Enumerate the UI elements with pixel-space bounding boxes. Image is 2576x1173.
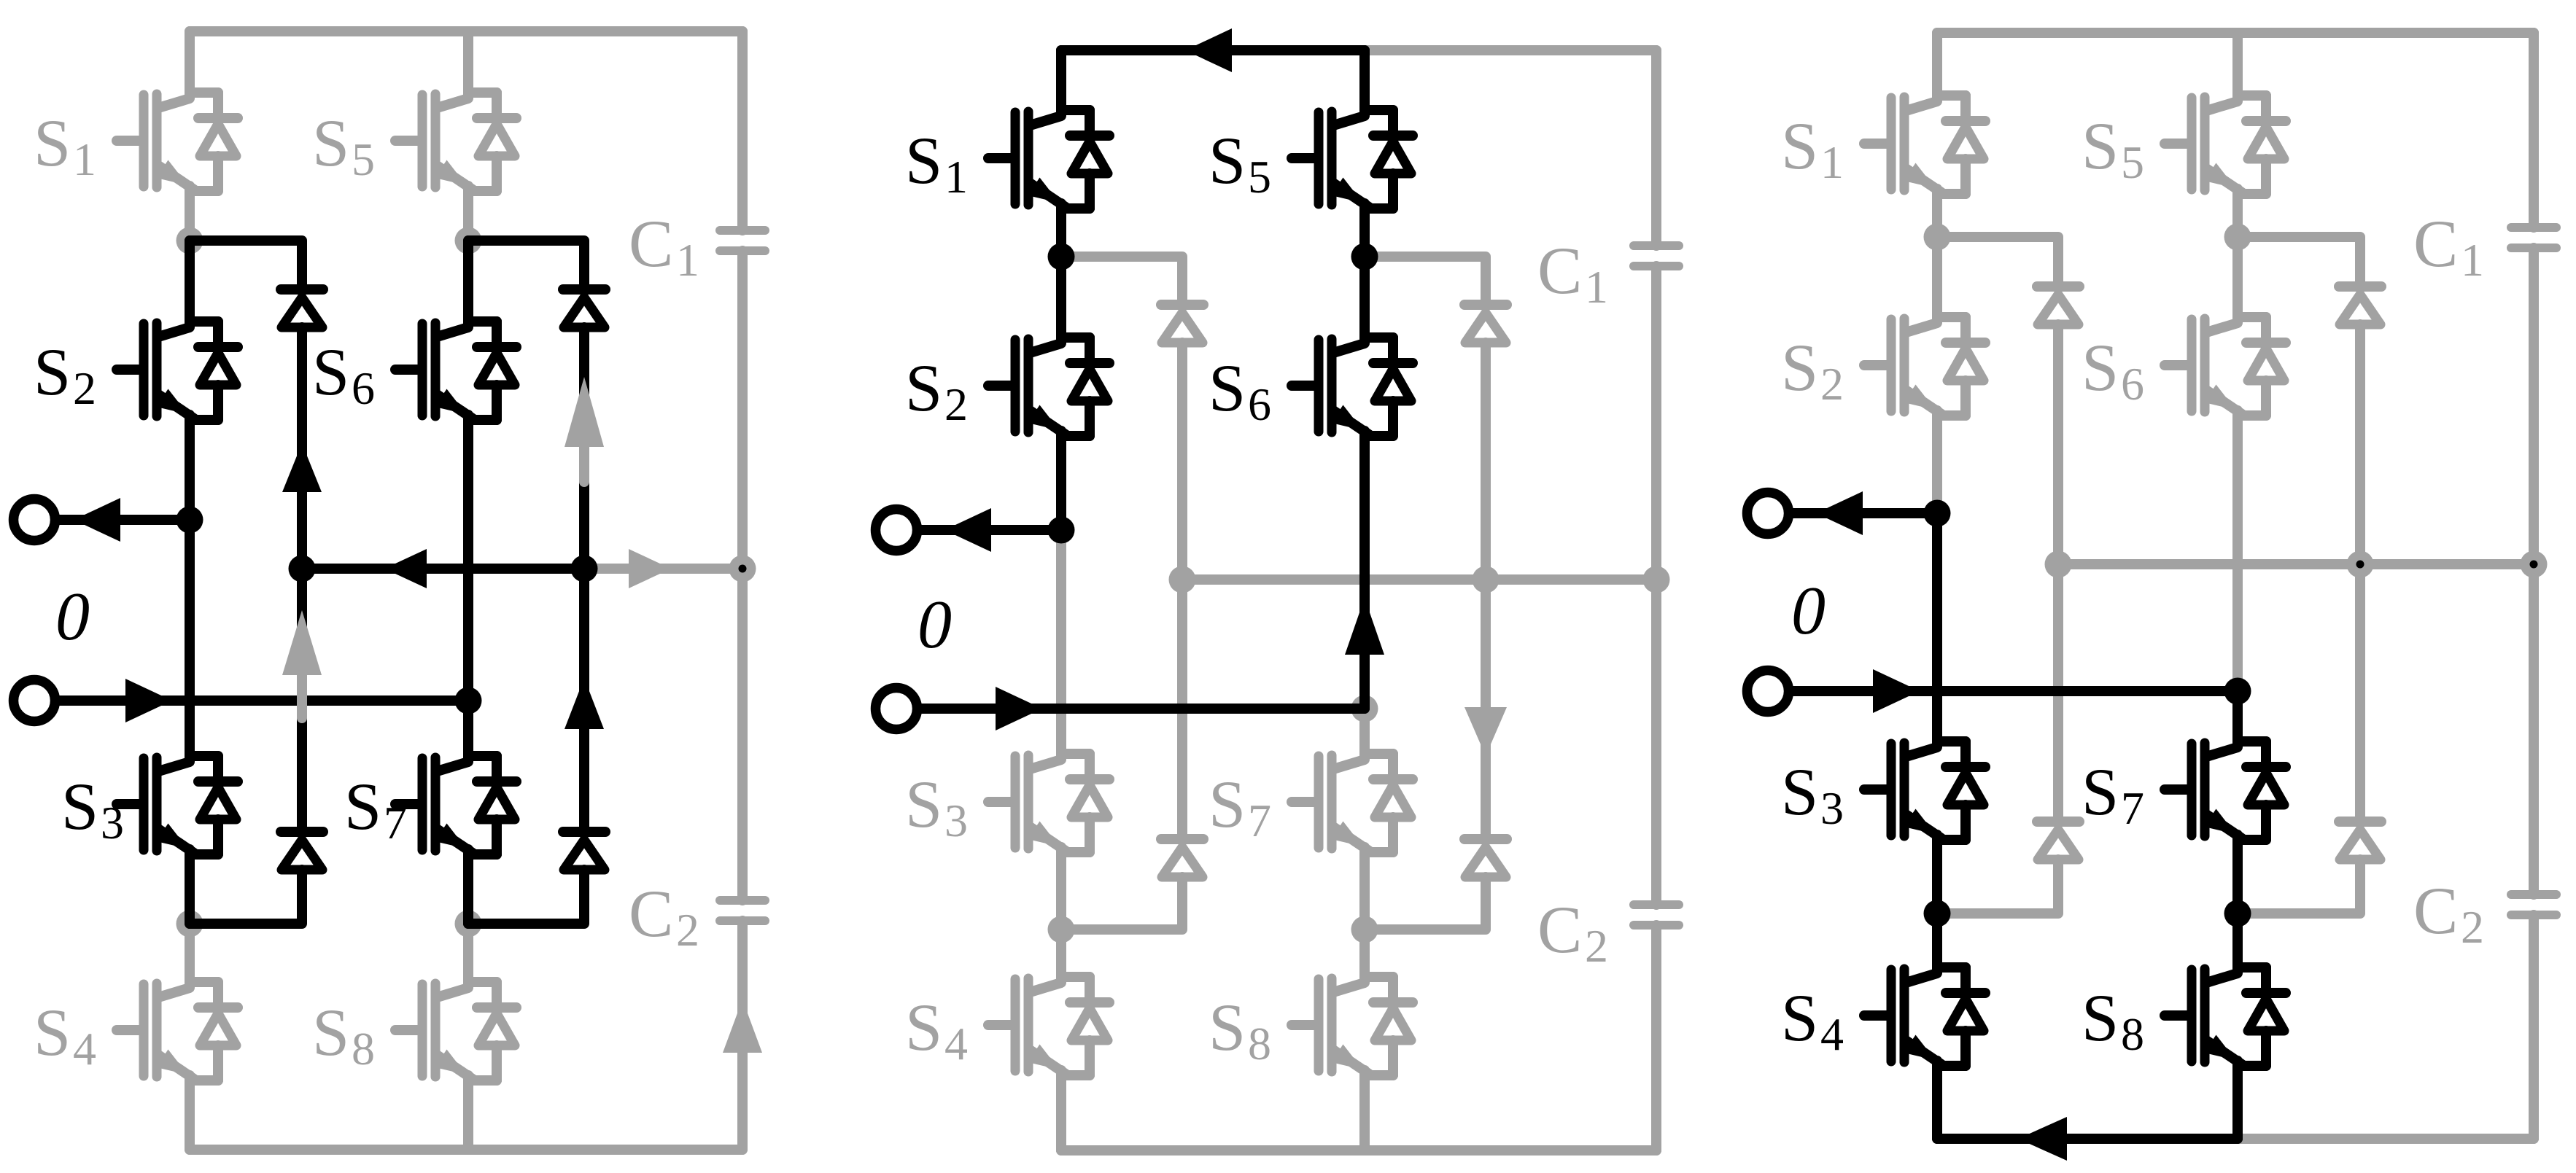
wire clamp branch 2 top jog (panel 3): [2238, 237, 2360, 287]
svg-text:S: S: [34, 995, 71, 1069]
label S7 (panel 1): [344, 769, 407, 849]
label S5 (panel 2): [1209, 123, 1271, 203]
wire neutral mid line left (panel 3): [2058, 559, 2360, 569]
label S4 (panel 1): [34, 995, 96, 1075]
junction clamp2 mid node (panel 1): [571, 556, 598, 582]
svg-text:S: S: [1781, 109, 1818, 183]
svg-text:S: S: [905, 123, 942, 198]
junction cap mid node (panel 2): [1643, 566, 1670, 593]
transistor S4 (panel 2): [988, 977, 1109, 1075]
transistor S1 (panel 3): [1864, 96, 1985, 194]
transistor S5 (panel 3): [2165, 96, 2286, 194]
svg-text:S: S: [34, 106, 71, 180]
capacitor C1 (panel 1): [720, 230, 765, 251]
wire output lead (panel 3): [1793, 508, 1937, 518]
current arrow output (panel 2): [944, 508, 991, 552]
wire left leg nodeB-S4 (panel 3): [1932, 913, 1942, 967]
svg-text:S: S: [2082, 755, 2119, 829]
junction node A2 (panel 3): [2224, 224, 2251, 251]
label S8 (panel 1): [312, 995, 375, 1075]
wire neutral lead (panel 1): [59, 695, 468, 706]
wire left leg S1-S2 gap (panel 3): [1932, 194, 1942, 237]
wire right leg nodeA-S2 (panel 3): [2232, 237, 2243, 317]
label S4 (panel 3): [1781, 981, 1844, 1060]
wire top rail (panel 1): [190, 26, 742, 36]
wire bottom rail right segment (panel 1): [468, 1145, 742, 1155]
svg-text:6: 6: [2121, 358, 2144, 410]
wire clamp branch 2 bottom jog (panel 2): [1365, 877, 1486, 930]
transistor S2 (panel 3): [1864, 317, 1985, 416]
junction node B1 (panel 3): [1924, 900, 1951, 927]
label S1 (panel 3): [1781, 109, 1844, 188]
svg-text:5: 5: [2121, 136, 2144, 188]
svg-text:1: 1: [944, 151, 968, 203]
clamp diode lower 1 (panel 2): [1161, 839, 1203, 877]
junction clamp2 mid node (panel 2): [1473, 566, 1500, 593]
svg-text:S: S: [2082, 109, 2119, 183]
svg-text:2: 2: [73, 362, 96, 414]
wire clamp branch 2 mid-lower (panel 3): [2355, 564, 2365, 822]
label C1 (panel 1): [629, 206, 699, 286]
label S2 (panel 3): [1781, 330, 1844, 410]
svg-text:S: S: [344, 769, 381, 843]
wire capacitor branch upper (panel 2): [1651, 50, 1661, 246]
svg-text:7: 7: [1248, 795, 1271, 846]
wire clamp branch 2 bottom jog (panel 1): [468, 870, 584, 924]
wire right leg S2-mid (panel 3): [2232, 416, 2243, 691]
clamp diode lower 1 (panel 1): [281, 832, 323, 870]
wire clamp branch 1 upper-mid (panel 1): [297, 327, 307, 569]
wire neutral lead (panel 2): [921, 704, 1365, 714]
label S2 (panel 2): [905, 351, 968, 430]
transistor S1 (panel 2): [988, 110, 1109, 209]
wire right leg top (panel 3): [2232, 33, 2243, 96]
wire clamp branch 2 mid-lower (panel 2): [1481, 580, 1491, 839]
transistor S8 (panel 2): [1292, 977, 1413, 1075]
svg-text:S: S: [1781, 755, 1818, 829]
junction node B1 (panel 1): [176, 911, 203, 938]
current arrow output (panel 3): [1816, 491, 1863, 535]
clamp diode upper 2 (panel 3): [2339, 287, 2381, 324]
junction node A1 (panel 3): [1924, 224, 1951, 251]
svg-text:1: 1: [1820, 136, 1844, 188]
wire clamp branch 1 mid-lower (panel 2): [1177, 580, 1187, 839]
wire capacitor branch upper (panel 3): [2529, 33, 2539, 227]
capacitor C2 (panel 1): [720, 900, 765, 921]
svg-text:S: S: [312, 335, 349, 409]
wire capacitor branch lower (panel 3): [2529, 915, 2539, 1139]
svg-text:3: 3: [944, 795, 968, 846]
wire clamp branch 2 bottom jog (panel 3): [2238, 860, 2360, 913]
svg-text:C: C: [2413, 873, 2458, 948]
current arrow clamp1 up (panel 1): [282, 443, 322, 492]
wire right leg S3-nodeB (panel 1): [463, 854, 473, 924]
svg-text:1: 1: [1585, 261, 1608, 313]
junction node B1 (panel 2): [1048, 916, 1075, 943]
wire clamp branch 1 top jog (panel 3): [1937, 237, 2058, 287]
wire right leg top (panel 1): [463, 31, 473, 93]
label S4 (panel 2): [905, 990, 968, 1069]
svg-text:S: S: [1209, 351, 1246, 425]
svg-text:3: 3: [101, 797, 124, 849]
wire clamp branch 1 bottom jog (panel 1): [190, 870, 302, 924]
wire right leg S3-nodeB (panel 2): [1359, 852, 1370, 930]
svg-text:2: 2: [944, 378, 968, 430]
wire clamp branch 1 top jog (panel 1): [190, 241, 302, 289]
wire left leg S2-mid (panel 1): [185, 420, 195, 520]
wire clamp branch 1 mid-lower (panel 1): [297, 569, 307, 832]
junction neutral corner gray (panel 2): [1351, 695, 1378, 722]
junction clamp1 mid node (panel 1): [289, 556, 316, 582]
current arrow clamp2 up (panel 1): [565, 678, 604, 729]
transistor S3 (panel 2): [988, 754, 1109, 852]
wire clamp branch 1 mid-lower (panel 3): [2053, 564, 2063, 822]
wire neutral mid line left (panel 1): [302, 564, 584, 574]
svg-text:1: 1: [73, 133, 96, 185]
wire clamp branch 1 upper-mid (panel 2): [1177, 343, 1187, 580]
svg-text:6: 6: [352, 362, 375, 414]
wire right leg S3-nodeB (panel 3): [2232, 840, 2243, 913]
wire bottom rail right segment (panel 3): [2238, 1134, 2534, 1144]
label S8 (panel 3): [2082, 981, 2144, 1060]
svg-text:8: 8: [2121, 1008, 2144, 1060]
svg-text:C: C: [2413, 206, 2458, 281]
wire left leg S3-nodeB (panel 1): [185, 854, 195, 924]
wire right leg mid-S3 (panel 3): [2232, 691, 2243, 741]
svg-text:S: S: [905, 990, 942, 1064]
wire capacitor branch upper (panel 1): [737, 31, 748, 230]
wire bottom rail left segment (panel 1): [190, 1145, 468, 1155]
wire right leg S1-S2 gap (panel 1): [463, 191, 473, 241]
junction node A1 (panel 2): [1048, 243, 1075, 270]
label S3 (panel 1): [61, 769, 124, 849]
wire neutral mid line right (panel 2): [1486, 574, 1656, 585]
wire right leg S2-mid (panel 1): [463, 420, 473, 701]
current arrow clamp2 down gray (panel 2): [1464, 707, 1507, 756]
svg-text:S: S: [2082, 981, 2119, 1055]
clamp diode upper 2 (panel 2): [1464, 305, 1507, 343]
wire bottom rail right segment (panel 2): [1365, 1145, 1656, 1156]
terminal output (panel 1): [14, 499, 55, 541]
wire right leg bottom (panel 2): [1359, 1075, 1370, 1150]
wire left leg bottom (panel 2): [1056, 1075, 1066, 1150]
junction node A2 (panel 1): [455, 227, 482, 254]
svg-text:0: 0: [917, 587, 952, 663]
svg-text:C: C: [1537, 892, 1582, 967]
junction cap mid node (panel 3): [2521, 551, 2548, 578]
label S6 (panel 2): [1209, 351, 1271, 430]
wire right leg nodeA-S2 (panel 1): [463, 241, 473, 321]
wire left leg mid-S3 (panel 3): [1932, 513, 1942, 741]
wire bottom rail left segment (panel 2): [1061, 1145, 1365, 1156]
wire right leg nodeB-S4 (panel 1): [463, 924, 473, 982]
capacitor C1 (panel 2): [1634, 246, 1679, 266]
capacitor C2 (panel 3): [2511, 895, 2556, 915]
current arrow neutral input (panel 3): [1873, 669, 1920, 713]
wire clamp branch 2 top jog (panel 2): [1365, 257, 1486, 305]
wire neutral lead (panel 3): [1793, 686, 2238, 696]
wire top rail (panel 3): [1937, 28, 2534, 38]
wire left leg nodeA-S2 (panel 1): [185, 241, 195, 321]
wire left leg nodeB-S4 (panel 1): [185, 924, 195, 982]
terminal output (panel 2): [876, 510, 917, 551]
current arrow top line left (panel 2): [1185, 28, 1232, 72]
wire left leg S2-mid (panel 2): [1056, 436, 1066, 530]
wire bottom rail left segment (panel 3): [1937, 1134, 2238, 1144]
svg-text:S: S: [1781, 981, 1818, 1055]
wire output lead (panel 2): [921, 525, 1061, 535]
label S6 (panel 1): [312, 335, 375, 414]
svg-text:2: 2: [676, 904, 699, 956]
terminal neutral 0 (panel 3): [1747, 671, 1789, 712]
transistor S7 (panel 1): [395, 756, 516, 854]
wire left leg top (panel 3): [1932, 33, 1942, 96]
wire right leg bottom (panel 1): [463, 1080, 473, 1150]
current arrow neutral input (panel 1): [125, 679, 172, 722]
wire neutral mid line right (panel 1): [584, 564, 742, 574]
current arrow cap branch gray (panel 1): [723, 999, 762, 1075]
label S7 (panel 2): [1209, 767, 1271, 846]
wire clamp branch 2 upper-mid (panel 1): [579, 327, 589, 569]
terminal neutral 0 (panel 2): [876, 688, 917, 730]
label S1 (panel 1): [34, 106, 96, 185]
transistor S3 (panel 1): [117, 756, 238, 854]
junction clamp1 mid node (panel 3): [2045, 551, 2072, 578]
wire left leg nodeB-S4 (panel 2): [1056, 930, 1066, 977]
wire right leg S1-S2 gap (panel 2): [1359, 209, 1370, 257]
capacitor C1 (panel 3): [2511, 227, 2556, 248]
label S2 (panel 1): [34, 335, 96, 414]
junction node B2 (panel 2): [1351, 916, 1378, 943]
junction output node (panel 1): [176, 507, 203, 534]
current arrow leg2 up (panel 2): [1345, 598, 1384, 655]
svg-text:S: S: [1209, 990, 1246, 1064]
transistor S2 (panel 1): [117, 321, 238, 420]
wire output lead (panel 1): [59, 515, 190, 525]
current arrow neutral input (panel 2): [996, 687, 1042, 730]
wire capacitor branch lower (panel 2): [1651, 925, 1661, 1150]
wire left leg S3-nodeB (panel 3): [1932, 840, 1942, 913]
wire left leg nodeA-S2 (panel 2): [1056, 257, 1066, 338]
svg-text:C: C: [1537, 233, 1582, 308]
current arrow bottom rail left (panel 3): [2018, 1117, 2067, 1161]
wire left leg top (panel 1): [185, 31, 195, 93]
transistor S6 (panel 3): [2165, 317, 2286, 416]
svg-text:S: S: [1209, 123, 1246, 198]
transistor S4 (panel 1): [117, 982, 238, 1080]
wire left leg S3-nodeB (panel 2): [1056, 852, 1066, 930]
label 0 (panel 1): [55, 579, 90, 655]
svg-text:S: S: [34, 335, 71, 409]
label S3 (panel 3): [1781, 755, 1844, 834]
clamp diode upper 1 (panel 2): [1161, 305, 1203, 343]
clamp diode upper 2 (panel 1): [563, 289, 605, 327]
svg-text:1: 1: [2461, 234, 2484, 286]
wire neutral mid line left (panel 2): [1182, 574, 1486, 585]
clamp diode upper 1 (panel 3): [2037, 287, 2079, 324]
svg-text:S: S: [905, 767, 942, 841]
svg-text:7: 7: [384, 797, 407, 849]
current arrow output (panel 1): [74, 498, 120, 542]
transistor S5 (panel 2): [1292, 110, 1413, 209]
transistor S6 (panel 2): [1292, 338, 1413, 436]
label S5 (panel 1): [312, 106, 375, 185]
wire neutral mid line right (panel 3): [2360, 559, 2534, 569]
transistor S7 (panel 3): [2165, 741, 2286, 840]
label S1 (panel 2): [905, 123, 968, 203]
label S5 (panel 3): [2082, 109, 2144, 188]
wire left leg S1-S2 gap (panel 1): [185, 191, 195, 241]
svg-text:S: S: [2082, 330, 2119, 405]
svg-text:6: 6: [1248, 378, 1271, 430]
wire right leg mid-S3 (panel 2): [1359, 709, 1370, 754]
clamp diode lower 2 (panel 2): [1464, 839, 1507, 877]
wire left leg S2-mid (panel 3): [1932, 416, 1942, 513]
junction output node (panel 3): [1924, 500, 1951, 527]
svg-text:5: 5: [352, 133, 375, 185]
svg-text:8: 8: [352, 1023, 375, 1075]
svg-text:1: 1: [676, 234, 699, 286]
wire clamp branch 1 top jog (panel 2): [1061, 257, 1182, 305]
wire clamp branch 2 upper-mid (panel 2): [1481, 343, 1491, 580]
svg-text:8: 8: [1248, 1018, 1271, 1069]
current arrow clamp2 gray overlay (panel 1): [565, 377, 604, 482]
wire left leg mid-S3 (panel 1): [185, 520, 195, 756]
wire left leg bottom (panel 1): [185, 1080, 195, 1150]
svg-text:S: S: [1209, 767, 1246, 841]
transistor S5 (panel 1): [395, 93, 516, 191]
svg-text:5: 5: [1248, 151, 1271, 203]
svg-text:7: 7: [2121, 782, 2144, 834]
svg-text:4: 4: [944, 1018, 968, 1069]
junction node A1 (panel 1): [176, 227, 203, 254]
svg-text:4: 4: [73, 1023, 96, 1075]
svg-text:S: S: [905, 351, 942, 425]
transistor S1 (panel 1): [117, 93, 238, 191]
current arrow clamp1 gray overlay (panel 1): [282, 610, 322, 718]
terminal output (panel 3): [1747, 493, 1789, 534]
wire capacitor branch lower (panel 1): [737, 921, 748, 1150]
wire clamp branch 2 upper-mid (panel 3): [2355, 324, 2365, 564]
wire left leg nodeA-S2 (panel 3): [1932, 237, 1942, 317]
svg-text:C: C: [629, 876, 673, 951]
wire clamp branch 1 bottom jog (panel 2): [1061, 877, 1182, 930]
capacitor C2 (panel 2): [1634, 905, 1679, 925]
transistor S8 (panel 1): [395, 982, 516, 1080]
wire left leg S1-S2 gap (panel 2): [1056, 209, 1066, 257]
current arrow mid line left (panel 1): [384, 549, 427, 588]
wire left leg mid-S3 (panel 2): [1056, 530, 1066, 754]
svg-text:S: S: [312, 995, 349, 1069]
clamp diode upper 1 (panel 1): [281, 289, 323, 327]
svg-text:S: S: [61, 769, 98, 843]
junction neutral-leg2 node (panel 3): [2224, 678, 2251, 705]
wire top rail (panel 2): [1061, 45, 1656, 55]
wire right leg nodeA-S2 (panel 2): [1359, 257, 1370, 338]
label S6 (panel 3): [2082, 330, 2144, 410]
wire clamp branch 1 bottom jog (panel 3): [1937, 860, 2058, 913]
label S3 (panel 2): [905, 767, 968, 846]
wire clamp branch 1 upper-mid (panel 3): [2053, 324, 2063, 564]
current arrow mid line right gray (panel 1): [629, 549, 671, 588]
wire capacitor branch middle (panel 1): [737, 251, 748, 900]
clamp diode lower 2 (panel 1): [563, 832, 605, 870]
label C2 (panel 2): [1537, 892, 1608, 972]
svg-text:2: 2: [1820, 358, 1844, 410]
svg-text:3: 3: [1820, 782, 1844, 834]
transistor S4 (panel 3): [1864, 967, 1985, 1066]
wire capacitor branch middle (panel 3): [2529, 248, 2539, 895]
clamp diode lower 2 (panel 3): [2339, 822, 2381, 860]
wire right leg top (panel 2): [1359, 50, 1370, 110]
wire clamp branch 2 top jog (panel 1): [468, 241, 584, 289]
wire left leg bottom (panel 3): [1932, 1066, 1942, 1139]
svg-text:0: 0: [1791, 573, 1826, 649]
svg-text:C: C: [629, 206, 673, 281]
wire clamp branch 2 mid-lower (panel 1): [579, 569, 589, 832]
wire right leg S1-S2 gap (panel 3): [2232, 194, 2243, 237]
transistor S7 (panel 2): [1292, 754, 1413, 852]
wire right leg nodeB-S4 (panel 3): [2232, 913, 2243, 967]
label C1 (panel 3): [2413, 206, 2484, 286]
label C2 (panel 1): [629, 876, 699, 956]
label 0 (panel 2): [917, 587, 952, 663]
svg-text:S: S: [1781, 330, 1818, 405]
label S7 (panel 3): [2082, 755, 2144, 834]
transistor S2 (panel 2): [988, 338, 1109, 436]
transistor S3 (panel 3): [1864, 741, 1985, 840]
svg-text:4: 4: [1820, 1008, 1844, 1060]
transistor S8 (panel 3): [2165, 967, 2286, 1066]
junction node B2 (panel 1): [455, 911, 482, 938]
junction node A2 (panel 2): [1351, 243, 1378, 270]
wire left leg top (panel 2): [1056, 50, 1066, 110]
transistor S6 (panel 1): [395, 321, 516, 420]
wire right leg S2-mid (panel 2): [1359, 436, 1370, 709]
junction cap mid node (panel 1): [729, 556, 756, 582]
junction node B2 (panel 3): [2224, 900, 2251, 927]
wire right leg bottom (panel 3): [2232, 1066, 2243, 1139]
junction neutral-leg2 node (panel 1): [455, 687, 482, 714]
clamp diode lower 1 (panel 3): [2037, 822, 2079, 860]
junction clamp2 mid node (panel 3): [2347, 551, 2374, 578]
wire right leg mid-S3 (panel 1): [463, 701, 473, 756]
wire capacitor branch middle (panel 2): [1651, 266, 1661, 905]
label C2 (panel 3): [2413, 873, 2484, 953]
label S8 (panel 2): [1209, 990, 1271, 1069]
svg-text:2: 2: [2461, 901, 2484, 953]
svg-text:S: S: [312, 106, 349, 180]
svg-text:0: 0: [55, 579, 90, 655]
junction clamp1 mid node (panel 2): [1169, 566, 1196, 593]
label C1 (panel 2): [1537, 233, 1608, 313]
svg-text:2: 2: [1585, 920, 1608, 972]
terminal neutral 0 (panel 1): [14, 680, 55, 722]
label 0 (panel 3): [1791, 573, 1826, 649]
wire top line black overlay (panel 2): [1061, 45, 1365, 55]
wire right leg nodeB-S4 (panel 2): [1359, 930, 1370, 977]
junction output node (panel 2): [1048, 517, 1075, 544]
